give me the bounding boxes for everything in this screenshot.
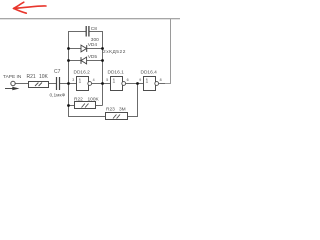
svg-text:DD16.2: DD16.2 — [74, 70, 91, 76]
svg-text:0,1мкФ: 0,1мкФ — [50, 93, 66, 99]
right rail of clamp group — [89, 32, 103, 106]
svg-text:C7: C7 — [54, 69, 61, 75]
wire gate3 output to right border — [159, 83, 165, 85]
junction VD4 right — [101, 47, 104, 50]
inverter U2 DD16.1 — [111, 77, 123, 91]
svg-text:9: 9 — [139, 78, 141, 82]
svg-text:1: 1 — [146, 78, 149, 84]
diode VD5 — [81, 57, 87, 64]
wire R21 to C7 — [49, 83, 57, 85]
junction VD5 left — [67, 59, 70, 62]
svg-text:DD16.1: DD16.1 — [108, 70, 125, 76]
svg-text:10K: 10K — [39, 74, 49, 80]
svg-text:C8: C8 — [91, 26, 97, 32]
svg-text:1: 1 — [79, 78, 82, 84]
wire TAPE IN to R21 — [15, 83, 28, 85]
node A vertical rail + wire to R23 — [69, 32, 106, 117]
svg-text:TAPE IN: TAPE IN — [3, 74, 22, 80]
svg-text:1: 1 — [113, 78, 116, 84]
svg-text:VD4: VD4 — [88, 42, 98, 48]
inverter U1 DD16.2 — [77, 77, 89, 91]
svg-text:R21: R21 — [27, 74, 36, 80]
wire VD5 row — [69, 60, 103, 62]
capacitor C8 — [85, 26, 87, 37]
wire gate2 output to gate3 input — [126, 83, 144, 85]
svg-text:3: 3 — [72, 78, 74, 82]
wire R22 left — [69, 105, 75, 107]
resistor R22 — [75, 102, 96, 109]
wire VD4 row — [69, 48, 103, 50]
resistor R21 — [29, 82, 49, 88]
svg-text:100K: 100K — [88, 96, 100, 102]
capacitor C7 — [56, 77, 58, 90]
wire R22 right riser to node B — [96, 105, 103, 107]
TAPE IN terminal — [11, 81, 15, 85]
svg-text:R22: R22 — [74, 96, 83, 102]
node B junction dot — [101, 82, 104, 85]
red annotation arrow — [14, 2, 47, 13]
wire R23 right riser to node C — [128, 84, 138, 117]
svg-text:3M: 3M — [119, 107, 126, 113]
diode VD4 — [81, 45, 87, 52]
svg-text:6: 6 — [127, 78, 129, 82]
svg-text:2хКД522: 2хКД522 — [103, 49, 126, 55]
junction R22 left — [67, 104, 70, 107]
node C junction dot — [136, 82, 139, 85]
inverter U3 DD16.4 — [144, 77, 156, 91]
wire C7 to node A to gate1 input — [60, 83, 77, 85]
input direction arrow — [5, 88, 14, 90]
svg-text:5: 5 — [106, 78, 108, 82]
svg-text:4: 4 — [93, 78, 95, 82]
resistor R23 — [106, 113, 128, 120]
svg-text:8: 8 — [160, 78, 162, 82]
junction VD4 left — [67, 47, 70, 50]
svg-text:R23: R23 — [106, 107, 115, 113]
svg-text:DD16.4: DD16.4 — [141, 70, 158, 76]
wire gate1 output to gate2 input — [92, 83, 111, 85]
svg-text:VD5: VD5 — [88, 54, 98, 60]
grey right border — [165, 19, 171, 84]
grey separator line — [0, 18, 180, 19]
node A junction dot — [67, 82, 70, 85]
junction VD5 right — [101, 59, 104, 62]
